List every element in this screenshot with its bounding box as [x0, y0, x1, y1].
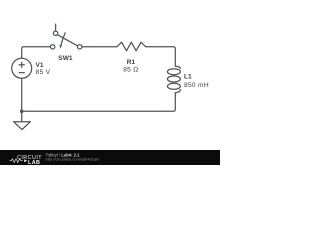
svg-text:L1: L1: [184, 73, 192, 80]
svg-text:850 mH: 850 mH: [184, 82, 209, 89]
ground: [14, 111, 31, 129]
logo resistor zigzag: [10, 159, 23, 163]
wire switch top stub: [55, 24, 57, 31]
switch lever: [57, 35, 77, 46]
svg-text:http://circuitlab.com/c8k45cqw: http://circuitlab.com/c8k45cqw: [46, 157, 99, 162]
wire resistor to top-right corner down to inductor: [146, 47, 176, 66]
switch terminal circle left: [50, 45, 54, 49]
wire top-left rail: [22, 47, 51, 59]
footer bar: [0, 150, 220, 165]
wire V1 bottom to junction: [21, 78, 23, 111]
switch action arrow: [61, 32, 65, 45]
svg-text:SW1: SW1: [58, 55, 73, 62]
switch terminal circle top: [53, 31, 57, 35]
logo arrow: [24, 159, 27, 162]
svg-text:R1: R1: [127, 59, 136, 66]
svg-text:LAB: LAB: [28, 160, 40, 165]
svg-text:85 V: 85 V: [36, 69, 51, 76]
switch terminal circle right: [78, 45, 82, 49]
node junction at bottom-left: [20, 110, 24, 114]
svg-text:V1: V1: [36, 62, 44, 69]
wire inductor bottom to bottom rail: [22, 93, 176, 112]
switch SW1: [50, 24, 82, 49]
wire switch right to resistor: [82, 46, 117, 48]
voltage source V1: [12, 58, 32, 78]
inductor L1 coil: [167, 66, 180, 92]
svg-text:85 Ω: 85 Ω: [123, 67, 138, 74]
resistor R1: [117, 42, 146, 51]
